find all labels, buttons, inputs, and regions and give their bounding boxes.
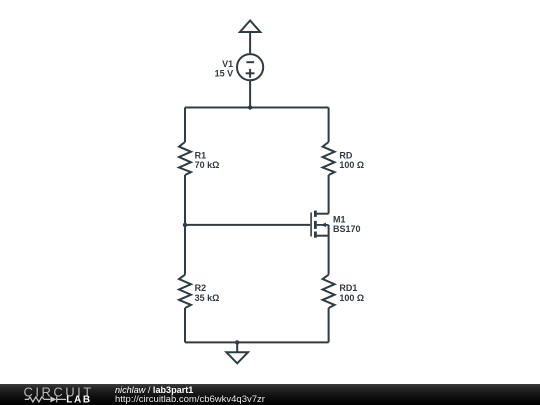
svg-text:RD1: RD1	[339, 283, 357, 293]
wire gate node to R2	[184, 225, 186, 275]
svg-text:V1: V1	[222, 59, 233, 69]
wire gate	[185, 224, 310, 226]
voltage source V1	[237, 54, 263, 80]
wire R1 to gate node	[184, 175, 186, 225]
wire RD to M1 drain	[328, 175, 330, 214]
footer url line	[115, 394, 265, 405]
logo resistor-diode squiggle	[25, 396, 66, 402]
svg-text:100 Ω: 100 Ω	[339, 160, 364, 170]
footer bar	[0, 384, 540, 405]
wire R2 to bottom bus	[184, 308, 186, 342]
svg-text:100 Ω: 100 Ω	[339, 293, 364, 303]
footer credit line	[115, 385, 193, 395]
resistor R1	[179, 142, 191, 175]
svg-text:35 kΩ: 35 kΩ	[195, 293, 220, 303]
svg-text:M1: M1	[333, 215, 346, 225]
svg-text:R1: R1	[195, 151, 207, 161]
wire top bus	[185, 107, 329, 109]
node gate junction	[183, 223, 187, 227]
node top junction	[248, 105, 252, 109]
svg-text:70 kΩ: 70 kΩ	[195, 160, 220, 170]
wire top bus to R1	[184, 108, 186, 143]
wire RD1 to bottom bus	[328, 308, 330, 342]
wire top bus to RD	[328, 108, 330, 143]
CircuitLab logo	[0, 384, 110, 405]
resistor R2	[179, 275, 191, 308]
node ground junction	[235, 340, 239, 344]
transistor M1	[311, 211, 329, 275]
svg-text:BS170: BS170	[333, 224, 361, 234]
wire bottom bus	[185, 341, 329, 343]
ground	[236, 342, 238, 352]
VCC power symbol	[240, 21, 260, 33]
svg-text:R2: R2	[195, 283, 207, 293]
resistor RD	[323, 142, 335, 175]
svg-text:RD: RD	[339, 151, 352, 161]
svg-text:15 V: 15 V	[215, 68, 234, 78]
svg-text:LAB: LAB	[66, 395, 92, 405]
wire V1 to top bus	[249, 80, 251, 107]
wire VCC to V1	[249, 32, 251, 54]
resistor RD1	[323, 275, 335, 308]
